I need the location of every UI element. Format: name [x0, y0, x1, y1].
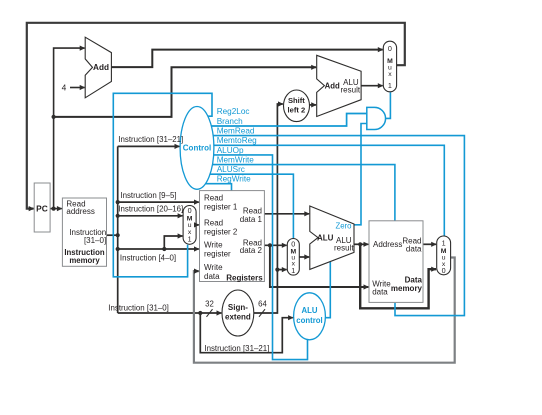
data memory box	[369, 221, 423, 303]
wire register mux output to Read register 2	[196, 224, 199, 226]
labels control signals	[217, 107, 257, 184]
svg-text:x: x	[388, 71, 392, 78]
svg-text:data: data	[204, 272, 220, 281]
registers box	[200, 191, 265, 282]
wire Branch control to AND gate	[205, 114, 366, 127]
svg-text:ALUOp: ALUOp	[217, 146, 244, 155]
svg-text:left 2: left 2	[288, 105, 306, 114]
svg-text:Address: Address	[373, 240, 402, 249]
svg-text:Branch: Branch	[217, 117, 243, 126]
svg-text:1: 1	[188, 234, 192, 243]
svg-text:0: 0	[188, 206, 192, 215]
svg-text:0: 0	[442, 266, 446, 275]
svg-text:Instruction [9–5]: Instruction [9–5]	[120, 191, 176, 200]
svg-text:Add: Add	[325, 81, 340, 90]
svg-text:64: 64	[258, 299, 267, 308]
svg-text:data 1: data 1	[240, 215, 263, 224]
wire ALU control output to ALU	[318, 262, 330, 318]
svg-text:Registers: Registers	[226, 274, 263, 283]
svg-text:register: register	[204, 250, 231, 259]
wire RegWrite control to Registers top	[205, 184, 232, 191]
arrowheads	[29, 46, 437, 321]
svg-text:address: address	[66, 207, 94, 216]
wire ALU mux output to ALU input	[299, 256, 309, 258]
wire Read data 2 branch to data memory write data	[270, 245, 368, 287]
wire ALU result bypass under data memory to mem mux input 0	[360, 244, 436, 308]
svg-text:Instruction [31–21]: Instruction [31–21]	[118, 135, 183, 144]
mux top (PC source)	[383, 41, 396, 92]
svg-text:0: 0	[291, 239, 295, 248]
svg-text:4: 4	[62, 82, 67, 92]
AND gate (branch and zero)	[367, 107, 386, 129]
wire instruction bus vertical	[117, 146, 119, 313]
bus width slash 64	[259, 309, 265, 317]
wire ALU result to data memory address	[354, 243, 368, 245]
wire instruction memory output to bus	[107, 234, 118, 236]
svg-text:MemtoReg: MemtoReg	[217, 136, 257, 145]
bus width slash 32	[207, 309, 213, 317]
adder Add (PC+4)	[85, 37, 111, 98]
svg-text:Instruction [20–16]: Instruction [20–16]	[118, 204, 183, 213]
adder Add (branch target)	[317, 55, 361, 116]
wire Instruction [31-21] to Control	[118, 145, 180, 147]
control unit oval	[180, 106, 214, 189]
svg-text:Read: Read	[204, 219, 223, 228]
svg-text:extend: extend	[225, 312, 251, 321]
wire MemWrite control to data memory top	[205, 165, 395, 222]
wire AND gate output to top mux select	[385, 92, 391, 118]
svg-text:Read: Read	[204, 194, 223, 203]
wire Instruction [20-16] to register mux input 0	[118, 215, 183, 217]
wire sign-extend output riser to shift left 2	[254, 104, 283, 313]
shift left 2 oval	[284, 90, 310, 122]
svg-text:Sign-: Sign-	[228, 303, 248, 312]
labels mux top	[187, 44, 447, 275]
svg-text:Reg2Loc: Reg2Loc	[217, 107, 250, 116]
mux mem-to-reg	[437, 236, 451, 275]
svg-text:u: u	[188, 222, 192, 229]
svg-text:[31–0]: [31–0]	[84, 236, 106, 245]
svg-text:32: 32	[205, 299, 214, 308]
PC register	[34, 183, 50, 232]
mux register read 2 (Reg2Loc)	[183, 206, 196, 245]
instruction memory box	[62, 198, 106, 266]
sign-extend oval	[222, 290, 254, 336]
svg-text:Write: Write	[204, 241, 223, 250]
wire constant 4 into Add	[70, 87, 85, 89]
wire PC to branch adder top input	[54, 67, 316, 117]
wire Instruction [31-21] to ALU control	[200, 313, 292, 353]
svg-text:Zero: Zero	[335, 221, 352, 230]
wire Reg2Loc control to register mux select	[113, 93, 212, 276]
wire Instruction [31-0] to sign-extend	[118, 312, 222, 314]
mux ALU source	[287, 239, 299, 276]
svg-text:data 2: data 2	[240, 246, 263, 255]
wire branch of Instruction [4-0] to register mux input 1	[164, 236, 182, 249]
svg-text:PC: PC	[36, 203, 48, 213]
svg-text:control: control	[296, 316, 322, 325]
svg-text:MemWrite: MemWrite	[217, 156, 255, 165]
wire Zero flag from ALU to AND gate	[350, 124, 366, 225]
svg-text:ALU: ALU	[317, 233, 334, 242]
svg-text:Instruction [4–0]: Instruction [4–0]	[120, 253, 176, 262]
svg-text:register 2: register 2	[204, 228, 238, 237]
svg-text:Instruction [31–21]: Instruction [31–21]	[204, 344, 269, 353]
ALU control oval	[294, 293, 326, 340]
svg-text:Shift: Shift	[288, 96, 305, 105]
wire data memory read data to mem mux input 1	[423, 243, 436, 245]
wire MemRead control to data memory bottom	[205, 136, 464, 316]
svg-text:data: data	[372, 287, 388, 296]
svg-text:1: 1	[388, 81, 392, 90]
svg-text:1: 1	[291, 266, 295, 275]
svg-text:result: result	[341, 85, 361, 94]
wire Instruction [4-0] to Write register	[118, 248, 199, 250]
svg-text:memory: memory	[69, 256, 100, 265]
wire Add output to top mux input 0	[111, 50, 382, 68]
wire shift left 2 output to branch adder	[310, 104, 317, 106]
ALU main	[310, 206, 354, 269]
wire PC to instruction memory read address	[50, 208, 62, 210]
svg-text:Write: Write	[204, 263, 223, 272]
wire branch adder output to top mux input 1	[361, 85, 383, 87]
svg-text:ALUSrc: ALUSrc	[217, 165, 245, 174]
wire Read data 2 to ALU mux input 0	[264, 244, 286, 246]
svg-text:Control: Control	[183, 144, 211, 153]
wire mem mux output wrap-around to Registers write data	[194, 258, 455, 363]
wire ALUOp control to ALU control	[205, 155, 308, 360]
wire ALUSrc control to ALU mux select	[205, 174, 293, 239]
svg-text:result: result	[334, 244, 354, 253]
wire PC riser to Add top input	[54, 48, 85, 209]
wire Read data 1 to ALU input	[264, 213, 309, 215]
svg-text:RegWrite: RegWrite	[217, 175, 251, 184]
wire PC feedback frame (mux output to PC input)	[27, 23, 405, 209]
svg-text:data: data	[406, 244, 422, 253]
svg-text:ALU: ALU	[301, 306, 317, 315]
svg-text:memory: memory	[391, 284, 423, 293]
svg-text:MemRead: MemRead	[217, 127, 255, 136]
svg-text:Instruction [31–0]: Instruction [31–0]	[108, 303, 169, 312]
svg-text:Add: Add	[93, 63, 109, 72]
svg-text:1: 1	[442, 239, 446, 248]
wire Instruction [9-5] to Read register 1	[118, 201, 199, 203]
wire sign-extend branch to ALU mux input 1	[277, 269, 286, 271]
svg-text:register 1: register 1	[204, 203, 238, 212]
wire MemtoReg control to mem mux select	[205, 145, 444, 236]
svg-text:0: 0	[388, 44, 392, 53]
